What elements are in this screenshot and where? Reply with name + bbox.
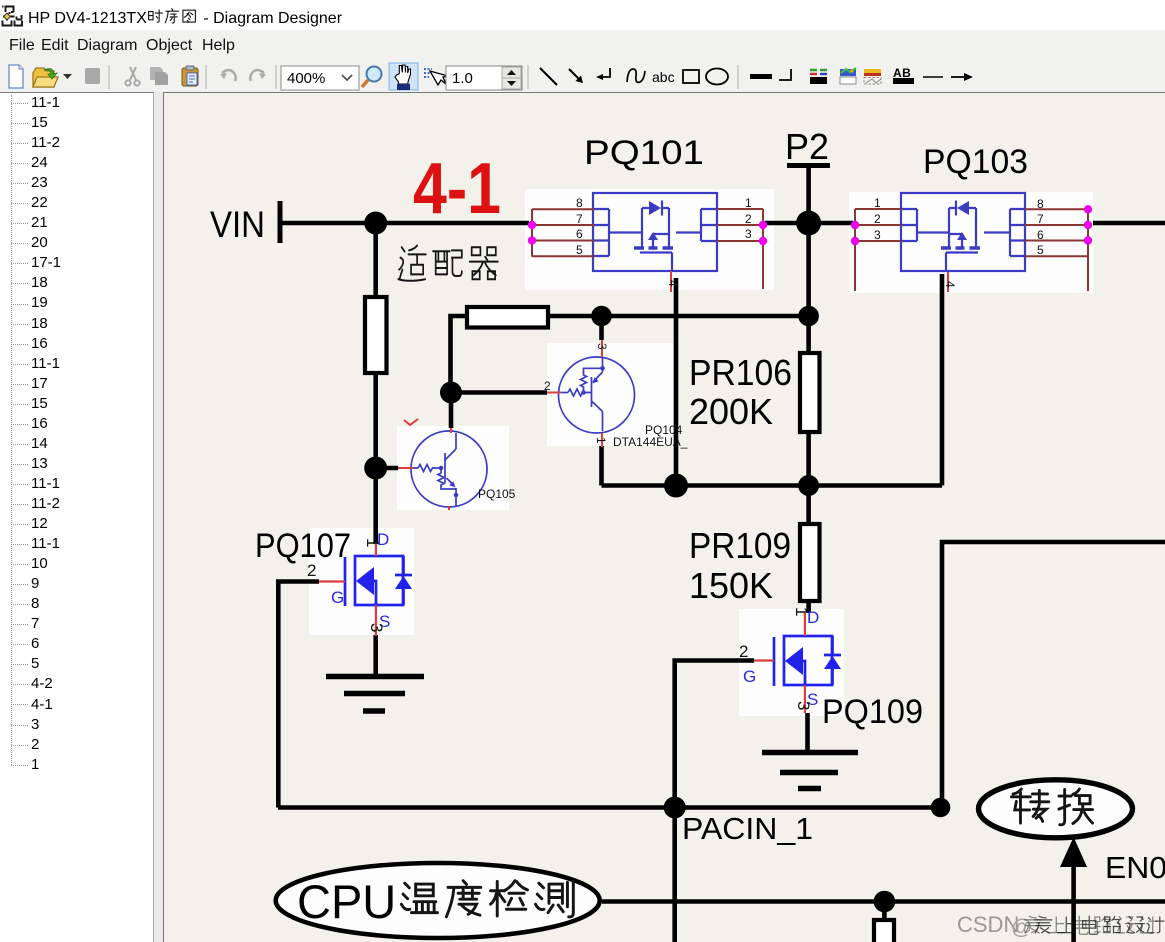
svg-text:7: 7 [576, 212, 583, 226]
wire PQ104 pin1 down [599, 446, 604, 486]
wire VIN node down to resistor [373, 223, 378, 299]
svg-text:200K: 200K [689, 391, 773, 432]
arrow into transfer ellipse [1060, 837, 1087, 942]
wire resistor to node [373, 372, 378, 468]
wire node to PQ107 drain [373, 468, 378, 544]
transistor PQ109 (MOSFET) [774, 636, 833, 686]
transfer ellipse [979, 780, 1133, 838]
fill color [840, 68, 856, 84]
svg-text:abc: abc [652, 69, 675, 85]
wire PQ103 to right edge [1093, 221, 1165, 226]
PQ103 pin 4 [947, 272, 949, 292]
wire node to PQ105 base [376, 466, 398, 471]
svg-text:CPU: CPU [297, 875, 396, 928]
zoom combo [281, 66, 359, 90]
PQ107 pin leads [319, 542, 376, 636]
wire node down to PQ105 [449, 393, 454, 429]
svg-text:PACIN_1: PACIN_1 [682, 811, 813, 846]
node PQ105 base net [364, 457, 387, 480]
resistor horizontal [467, 307, 548, 328]
tool: arrow line [569, 69, 580, 80]
transistor PQ107 (MOSFET) [345, 556, 404, 606]
node PR106 top [798, 306, 819, 327]
svg-text:1: 1 [874, 196, 881, 210]
svg-text:AB: AB [893, 66, 911, 80]
wire PQ109 source to ground [805, 713, 810, 751]
line join [779, 69, 791, 80]
svg-text:2: 2 [745, 212, 752, 226]
magnifier [362, 67, 382, 88]
wire node to resistor [882, 902, 887, 921]
wire VIN to PQ101 [280, 221, 529, 226]
node PQ104 collector [591, 306, 612, 327]
svg-text:PQ101: PQ101 [584, 134, 704, 172]
CPU temperature ellipse [276, 863, 600, 938]
svg-text:CSDN: CSDN [957, 912, 1019, 937]
node VIN junction [364, 212, 387, 235]
PQ105 pin leads [398, 428, 451, 510]
line color [810, 70, 827, 84]
svg-text:400%: 400% [287, 70, 325, 87]
wire node to PQ104 pin3 [599, 316, 604, 340]
grid spin box [446, 66, 522, 90]
PQ103 left pins 1,2,3 [855, 209, 901, 291]
transistor PQ104 (DTA144EUA) [559, 357, 635, 433]
ground PQ107 [326, 677, 424, 712]
wire node to PR106 [806, 223, 811, 353]
svg-text:PQ105: PQ105 [478, 487, 516, 501]
PQ104 pin numbers [544, 343, 609, 444]
node P2 junction [796, 211, 821, 236]
new document button [9, 65, 23, 88]
PQ103 pin numbers [874, 196, 1044, 288]
wire PQ103 pin4 down [940, 274, 945, 486]
svg-text:PR106: PR106 [689, 352, 792, 393]
PQ104 labels [613, 423, 688, 449]
tool: curve [627, 69, 645, 82]
wire PQ109 gate [675, 661, 754, 942]
wire PQ101 pin4 down to node [674, 278, 679, 486]
PQ101 right pins 1,2,3 [717, 209, 763, 289]
svg-text:5: 5 [576, 243, 583, 257]
redo (disabled) [250, 70, 264, 81]
paste [182, 66, 198, 86]
default line [923, 76, 943, 78]
svg-text:1: 1 [745, 196, 752, 210]
PQ101 pin numbers [576, 196, 752, 287]
wire right edge to transfer node [942, 542, 1165, 808]
PQ109 pin leads [754, 613, 805, 713]
PQ101 left pins 8,7,6,5 [532, 209, 594, 257]
svg-text:1.0: 1.0 [452, 70, 473, 87]
resistor PR109 [800, 524, 820, 601]
watermark [957, 912, 1164, 939]
svg-text:PQ103: PQ103 [923, 143, 1028, 181]
component background PQ104 [547, 343, 673, 446]
node bottom resistor [874, 891, 896, 913]
svg-text:PQ107: PQ107 [255, 527, 351, 565]
PQ101 pin 4 [670, 271, 672, 292]
resistor left column (vertical) [365, 297, 387, 373]
node PQ101 pin4 net [664, 474, 688, 498]
node PACIN_1 [664, 797, 686, 819]
wire PQ107 source to ground [373, 635, 378, 675]
tool: rectangle [683, 70, 699, 83]
default arrow [951, 76, 966, 78]
svg-text:5: 5 [1037, 243, 1044, 257]
dropdown arrow [63, 74, 72, 79]
red marker [404, 419, 418, 425]
svg-text:3: 3 [367, 623, 386, 632]
wire CPU ellipse to right edge [602, 899, 1165, 904]
svg-text:6: 6 [576, 227, 583, 241]
component background PQ101 [525, 189, 774, 290]
wire PQ104 to PR106 bottom node [602, 483, 943, 488]
object select tool [424, 69, 448, 85]
svg-text:6: 6 [1037, 228, 1044, 242]
svg-text:1: 1 [792, 607, 811, 616]
P2 terminal bar [787, 163, 830, 168]
wire P2 to node [806, 165, 811, 223]
svg-text:8: 8 [1037, 197, 1044, 211]
undo (disabled) [222, 70, 236, 81]
wire corner to horizontal resistor [451, 316, 468, 393]
tool: polyline [599, 68, 610, 77]
svg-text:PQ109: PQ109 [822, 693, 923, 731]
component background PQ109 [739, 609, 844, 716]
save button (disabled) [85, 68, 100, 84]
component background PQ105 [397, 426, 509, 510]
open folder button [33, 68, 58, 87]
wire PQ107 gate [278, 582, 319, 808]
wire resistor to PR106 top node [547, 314, 809, 319]
node transfer [931, 798, 951, 818]
svg-text:3: 3 [794, 701, 813, 710]
resistor bottom (partial) [874, 920, 894, 942]
svg-text:1: 1 [363, 538, 382, 547]
wire PACIN_1 [278, 805, 942, 810]
label adapter (CJK) [398, 246, 497, 281]
svg-text:7: 7 [1037, 212, 1044, 226]
shadow color [864, 69, 881, 84]
svg-text:G: G [331, 588, 344, 607]
text color [893, 66, 914, 84]
svg-text:3: 3 [595, 343, 609, 350]
transistor PQ105 [411, 431, 487, 507]
svg-text:8: 8 [576, 196, 583, 210]
svg-text:2: 2 [739, 642, 748, 661]
wire PR109 to PQ109 drain [806, 601, 811, 613]
svg-text:4-1: 4-1 [413, 149, 501, 229]
pan hand (active) [389, 63, 418, 90]
PQ104 pin leads [547, 340, 602, 447]
svg-text:1: 1 [594, 437, 608, 444]
svg-text:3: 3 [745, 227, 752, 241]
PQ103 right pins 8,7,6,5 [1025, 209, 1088, 291]
connection markers (magenta) [528, 221, 536, 229]
copy (disabled) [150, 67, 168, 85]
svg-text:P2: P2 [785, 126, 829, 167]
svg-text:VIN: VIN [210, 204, 265, 245]
svg-text:2: 2 [874, 212, 881, 226]
tool: ellipse [706, 69, 728, 85]
svg-text:4: 4 [943, 281, 957, 288]
cut (disabled) [125, 67, 139, 86]
wire node to PQ104 base [451, 390, 548, 395]
svg-text:3: 3 [874, 228, 881, 242]
svg-text:2: 2 [544, 379, 551, 393]
line width [750, 74, 772, 79]
PQ109 labels [743, 608, 819, 709]
svg-text:150K: 150K [689, 565, 773, 606]
wire PR106 to PR109 [806, 432, 811, 524]
tool: line [540, 68, 557, 85]
component background PQ107 [309, 528, 414, 635]
VIN terminal [278, 201, 283, 243]
svg-text:4: 4 [666, 280, 680, 287]
node PR106 bottom [798, 475, 819, 496]
svg-text:DTA144EUA_: DTA144EUA_ [613, 435, 688, 449]
label transfer (CJK) [1011, 789, 1092, 825]
resistor PR106 [800, 353, 820, 432]
svg-text:EN0: EN0 [1105, 850, 1165, 885]
wire PQ101 to PQ103 through P2 node [765, 221, 853, 226]
svg-text:PR109: PR109 [689, 525, 791, 566]
component background PQ103 [849, 192, 1093, 293]
node PQ104 base net [440, 382, 462, 404]
svg-text:G: G [743, 667, 756, 686]
PQ107 labels [331, 530, 390, 631]
transistor PQ103 (dual MOSFET, mirrored) [901, 193, 1025, 271]
ground PQ109 [762, 753, 858, 789]
transistor PQ101 (dual MOSFET) [593, 193, 717, 271]
